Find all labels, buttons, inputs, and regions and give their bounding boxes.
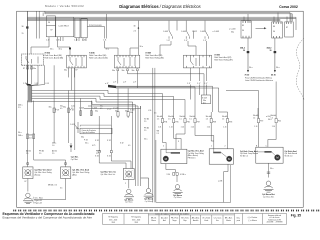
left col wire x99 — [98, 116, 100, 151]
ground G5 — [264, 181, 274, 192]
svg-text:30 a: 30 a — [140, 46, 143, 48]
svg-text:1.0: 1.0 — [52, 145, 54, 147]
label X008 — [145, 53, 151, 55]
left col wire x74.8 — [74, 68, 76, 150]
ground G3 — [141, 178, 154, 198]
svg-text:F19: F19 — [260, 120, 263, 122]
X007 pins below — [69, 68, 75, 91]
svg-text:1 J4: 1 J4 — [254, 126, 257, 128]
X34 connector squares — [173, 173, 179, 176]
left col wire x111 — [110, 116, 112, 151]
svg-text:30 a: 30 a — [50, 49, 53, 51]
svg-text:X 32: X 32 — [107, 156, 111, 158]
fan line 2 — [32, 93, 174, 115]
footer dialog cell — [248, 216, 258, 222]
contact S1 labels — [163, 31, 170, 42]
svg-text:C-013: C-013 — [70, 124, 75, 126]
middle vertical pair long — [153, 68, 155, 203]
G3 label — [144, 199, 153, 203]
V2 motor circle — [63, 170, 69, 176]
svg-text:87: 87 — [25, 181, 27, 183]
svg-text:F38: F38 — [213, 121, 216, 123]
fuse B8 right — [257, 119, 259, 123]
svg-text:Cores de Cabos / Colores de lo: Cores de Cabos / Colores de los Cables — [155, 213, 189, 216]
cut tick strip — [13, 210, 319, 212]
svg-text:1 J4: 1 J4 — [207, 127, 210, 129]
svg-text:35/1 - 35/2: 35/1 - 35/2 — [109, 219, 117, 221]
label 30A-2 left — [240, 47, 245, 53]
svg-text:Fig. 35: Fig. 35 — [291, 213, 301, 217]
svg-text:1.5: 1.5 — [179, 118, 181, 120]
harness band — [28, 85, 32, 102]
svg-text:60 30: 60 30 — [271, 74, 276, 76]
M1 pin wire inner — [165, 149, 167, 153]
svg-text:70 30: 70 30 — [245, 74, 250, 76]
left col wire x80.7 — [80, 99, 82, 117]
page cloud cutout — [296, 38, 304, 100]
left wire to motor2 — [34, 150, 66, 167]
V1 pin square — [27, 163, 29, 165]
M2 resistor tail — [221, 152, 227, 156]
bracket over caixa — [80, 125, 111, 126]
svg-text:30a: 30a — [49, 107, 52, 109]
svg-text:6 J5: 6 J5 — [46, 83, 49, 85]
svg-text:0.5: 0.5 — [154, 113, 156, 115]
svg-text:F18: F18 — [229, 121, 232, 123]
svg-text:30 a: 30 a — [59, 49, 62, 51]
top-right relay box K7 — [285, 22, 294, 37]
svg-text:0.5: 0.5 — [203, 102, 206, 104]
frame border — [17, 11, 304, 207]
X007 inner contact — [69, 55, 84, 68]
wire — [160, 41, 171, 55]
wire from K4 to right — [87, 26, 104, 28]
svg-text:a C-003: a C-003 — [229, 29, 235, 31]
svg-text:30: 30 — [22, 26, 24, 28]
svg-text:30 a: 30 a — [270, 168, 273, 170]
svg-text:Lista C/D/M Distribución Eléct: Lista C/D/M Distribución Eléctrica — [245, 79, 274, 82]
svg-text:30 a: 30 a — [18, 132, 22, 134]
svg-text:X 32: X 32 — [120, 143, 124, 145]
contact switch S2 — [186, 21, 193, 39]
wire drop — [36, 11, 38, 38]
svg-text:30 a: 30 a — [249, 67, 253, 69]
svg-text:F20: F20 — [278, 120, 281, 122]
svg-text:208 a: 208 a — [18, 135, 23, 137]
svg-text:30a: 30a — [130, 112, 133, 114]
svg-text:2.5: 2.5 — [39, 153, 41, 155]
connector labels 1J2 1J3 row — [46, 40, 106, 42]
wire — [58, 41, 71, 55]
net label right of contacts — [229, 29, 235, 34]
fuse A2 — [90, 111, 92, 116]
wire to arrow left — [248, 53, 275, 70]
relay X006 label — [45, 53, 51, 55]
pin labels under X007 — [64, 69, 78, 71]
wires below fuses staircase — [163, 123, 277, 150]
harness band edge — [31, 86, 33, 102]
svg-text:Rojo: Rojo — [184, 220, 187, 222]
M1 resistor — [171, 152, 180, 154]
svg-text:VD blk 1.0: VD blk 1.0 — [285, 155, 293, 157]
left wire labels — [18, 105, 79, 140]
svg-text:2.5: 2.5 — [134, 31, 137, 33]
V2 label — [72, 168, 89, 176]
M2 motor circle — [227, 156, 232, 161]
ground G1 — [23, 193, 33, 204]
svg-text:30a: 30a — [112, 70, 115, 72]
stair wire 1 — [163, 123, 167, 150]
destination text — [245, 77, 274, 83]
fuse B9 right — [275, 119, 277, 123]
svg-text:1 J7: 1 J7 — [197, 83, 200, 85]
relay box K2 — [56, 17, 74, 37]
G1 brace — [32, 197, 35, 204]
svg-text:2.5: 2.5 — [144, 121, 146, 123]
wire X34 to ground G4 — [176, 175, 178, 182]
svg-text:3.5: 3.5 — [60, 188, 62, 190]
M3 resistor — [264, 151, 271, 153]
svg-text:(Baixa): (Baixa) — [35, 174, 41, 176]
svg-text:15: 15 — [22, 33, 24, 35]
G2 label — [124, 199, 133, 203]
svg-text:30 a: 30 a — [276, 67, 280, 69]
svg-text:3: 3 — [178, 141, 179, 143]
right wire B — [258, 123, 260, 148]
fuse row B — [161, 119, 277, 123]
svg-text:30: 30 — [243, 50, 245, 52]
M3 clutch circle — [275, 155, 281, 161]
stair wire 3 — [176, 123, 185, 150]
svg-text:a J7: a J7 — [105, 83, 108, 85]
svg-text:F 34: F 34 — [84, 140, 88, 142]
fuse B1 — [161, 119, 163, 123]
fan line 5 — [32, 101, 136, 104]
wire — [105, 41, 119, 55]
svg-text:POS 15/54 IGN: POS 15/54 IGN — [89, 25, 102, 27]
bundle feed 6 — [88, 105, 138, 107]
X008a pin squares — [117, 69, 138, 71]
right wire C — [268, 123, 276, 148]
M2 resistor — [213, 152, 221, 154]
fan motor box M2 — [209, 149, 233, 164]
svg-text:1.5: 1.5 — [253, 117, 255, 119]
svg-text:1 J4: 1 J4 — [272, 126, 275, 128]
V1 label — [35, 168, 52, 176]
svg-text:F35: F35 — [176, 121, 179, 123]
V2 motor cross — [62, 169, 69, 176]
upper weave wires — [116, 86, 259, 112]
K5 K6 pins down — [248, 38, 275, 52]
weave loop — [116, 86, 213, 112]
svg-text:Figura 44: Figura 44 — [35, 202, 42, 205]
K6 labels — [273, 26, 275, 33]
svg-text:1.5: 1.5 — [157, 118, 159, 120]
X006 pins below — [28, 65, 45, 84]
svg-text:Cpl. Masa: Cpl. Masa — [174, 197, 182, 199]
fuse row A labels — [79, 108, 128, 113]
M3 resistor wires — [258, 152, 275, 156]
connector blob left — [247, 51, 250, 53]
footer table frame — [103, 214, 287, 225]
wire — [130, 48, 138, 55]
svg-text:30: 30 — [270, 50, 272, 52]
bundle feed 7 — [84, 106, 141, 109]
center bundle wires — [84, 102, 141, 186]
svg-text:30a: 30a — [122, 70, 125, 72]
svg-text:a J7: a J7 — [123, 81, 126, 83]
svg-text:1.5: 1.5 — [222, 118, 224, 120]
bus line 30 — [45, 12, 290, 14]
pin square x111 — [110, 151, 112, 153]
fuse A4 — [127, 112, 129, 117]
connector blob right — [274, 51, 277, 53]
svg-text:C-003: C-003 — [163, 31, 168, 33]
svg-text:2.5: 2.5 — [96, 153, 98, 155]
arrow to K6 — [256, 27, 265, 29]
svg-text:1 J3: 1 J3 — [74, 40, 77, 42]
svg-text:Relé Vent. Refrig (86): Relé Vent. Refrig (86) — [145, 57, 164, 60]
svg-text:a C-003: a C-003 — [213, 31, 219, 33]
relay box K1 top-left — [46, 16, 55, 37]
bundle wire 6 — [137, 106, 139, 186]
fuse B3 — [184, 119, 186, 123]
svg-text:Nº Esquema: Nº Esquema — [108, 216, 117, 219]
fuse row B wires top — [163, 112, 277, 119]
wire V2 down — [34, 179, 66, 200]
diode symbol left-center — [70, 146, 73, 149]
ventilator motor box V1 — [23, 167, 33, 179]
wires into motor3 — [99, 153, 131, 169]
svg-text:406 a: 406 a — [18, 105, 23, 107]
svg-text:Nº Diagrama: Nº Diagrama — [131, 216, 141, 219]
svg-text:87: 87 — [51, 30, 53, 32]
bus bundle band — [27, 16, 296, 18]
pin letter labels — [163, 141, 268, 148]
M3 left label — [240, 150, 258, 158]
fuse A1 — [80, 111, 82, 116]
wire gauge labels row under connectors — [50, 46, 143, 51]
svg-text:Cpl. Masa: Cpl. Masa — [145, 201, 153, 203]
svg-text:a J7: a J7 — [133, 81, 136, 83]
X006 pin squares — [26, 67, 32, 69]
contact S3 labels — [200, 31, 219, 42]
contact switch S1 — [169, 21, 177, 39]
wire drop x138 — [138, 21, 139, 56]
M1 motor circle — [163, 156, 168, 161]
pin square x99 — [98, 151, 100, 153]
svg-text:1 J4: 1 J4 — [181, 127, 184, 129]
weave wire — [116, 88, 228, 112]
pin labels 87 30a — [23, 68, 36, 70]
bundle wire 5 — [134, 105, 136, 187]
svg-text:blk =: blk = — [237, 218, 240, 220]
left long wire 2 — [33, 101, 35, 150]
ground G2 — [124, 189, 134, 198]
label right of M1 — [188, 150, 204, 160]
X008b pins below — [190, 68, 206, 100]
svg-text:CZ = Cinza: CZ = Cinza — [214, 218, 222, 220]
svg-text:Modelo / Versão 5601/02: Modelo / Versão 5601/02 — [45, 4, 84, 8]
labels above left motors — [26, 150, 101, 156]
label 30A-2 right — [267, 47, 272, 53]
wire — [206, 41, 208, 55]
M2 pin wire inner — [213, 149, 215, 153]
wire drop pair x105 — [105, 14, 107, 39]
fuse A3 feed — [117, 88, 119, 111]
harness wedge 2 — [108, 85, 116, 88]
relay X006 dashed box — [21, 54, 43, 65]
wire V3 to ground — [128, 180, 130, 189]
svg-text:Relé Vent. Refrig (87): Relé Vent. Refrig (87) — [214, 59, 233, 62]
wire — [31, 41, 49, 54]
compressor box M3 — [256, 147, 283, 163]
svg-text:30: 30 — [242, 30, 244, 32]
svg-text:Blanco: Blanco — [151, 220, 156, 222]
fuse B2 — [173, 119, 175, 123]
svg-text:L 30: L 30 — [148, 110, 151, 112]
svg-text:30a: 30a — [132, 70, 135, 72]
svg-text:Diagramas Elétricos / Diagrama: Diagramas Elétricos / Diagramas Eléctric… — [119, 4, 200, 9]
svg-text:1 J3: 1 J3 — [82, 40, 85, 42]
wire gauge labels — [249, 67, 280, 69]
a014 labels — [266, 116, 272, 121]
svg-text:30a: 30a — [63, 107, 66, 109]
V3 motor cross — [125, 170, 132, 177]
V2 pin square — [65, 163, 67, 165]
vertical pair labels — [144, 119, 160, 141]
svg-text:35/3: 35/3 — [112, 222, 115, 224]
svg-text:X 32: X 32 — [107, 140, 111, 142]
top-right relay box K6 — [272, 22, 283, 38]
left col wire x91.3 — [90, 101, 92, 116]
svg-text:a C-0: a C-0 — [107, 109, 111, 111]
svg-text:30a: 30a — [231, 32, 234, 34]
svg-text:F 19: F 19 — [56, 110, 60, 112]
wires from connector row down to relay row 2 — [31, 41, 207, 55]
wire drop pair left — [42, 13, 44, 17]
box M2 bottom wire — [224, 164, 228, 202]
svg-text:Caja de Fusibles: Caja de Fusibles — [82, 132, 95, 134]
svg-text:PR blk 2.5: PR blk 2.5 — [188, 157, 196, 159]
M3 bottom wire — [268, 163, 270, 178]
wire drop — [38, 11, 40, 38]
aJ7 labels under X008a — [113, 81, 136, 83]
svg-text:406: 406 — [29, 135, 32, 137]
stair wire 5 — [211, 123, 214, 141]
box M1 bottom wire to X34 — [166, 164, 176, 173]
svg-text:87: 87 — [76, 69, 78, 71]
svg-text:30 a: 30 a — [144, 139, 147, 141]
contact S2 labels — [181, 31, 197, 42]
svg-text:22105788 → 2Y999999: 22105788 → 2Y999999 — [267, 222, 283, 224]
svg-text:C-012: C-012 — [192, 31, 197, 33]
svg-text:Para C/D/M Distribuição Elétri: Para C/D/M Distribuição Elétrica — [245, 77, 273, 80]
svg-text:1.5: 1.5 — [206, 118, 208, 120]
X34 labels — [167, 174, 186, 176]
fuse F18 — [68, 108, 70, 113]
relay box K3 — [75, 18, 80, 38]
svg-text:1: 1 — [211, 146, 212, 148]
wire — [188, 41, 196, 55]
V3 label — [101, 170, 117, 176]
svg-text:MR blk / 2.5: MR blk / 2.5 — [48, 185, 57, 187]
svg-text:VD blk 1.0: VD blk 1.0 — [240, 155, 248, 157]
svg-text:30a: 30a — [33, 68, 36, 70]
V3 motor circle — [126, 171, 132, 177]
fuse left low 1 — [26, 134, 28, 139]
junction labels 1J7 row — [187, 83, 207, 85]
X008a inner contact — [117, 55, 136, 68]
fan line 3 — [32, 96, 186, 115]
fuse A3 — [117, 112, 119, 117]
stair wire 6 — [227, 123, 229, 149]
svg-text:1 J4: 1 J4 — [191, 127, 194, 129]
K5 inner labels — [242, 25, 244, 32]
relay small symbols x74-78 — [75, 122, 78, 133]
arrowhead down left — [247, 70, 249, 73]
svg-text:30a: 30a — [81, 137, 84, 139]
svg-text:85: 85 — [242, 25, 244, 27]
svg-text:2: 2 — [225, 146, 226, 148]
svg-text:Cpl. Masa Mot.: Cpl. Masa Mot. — [263, 195, 275, 198]
junction labels 1J5 row — [23, 83, 108, 85]
svg-text:1 J7: 1 J7 — [204, 83, 207, 85]
fan line 1 — [32, 90, 186, 115]
ground G4 — [173, 185, 183, 194]
feed labels 30 15 — [22, 26, 24, 35]
svg-text:1 J7: 1 J7 — [184, 40, 187, 42]
arrowhead — [264, 27, 267, 29]
bus right turn-down — [289, 13, 291, 22]
svg-text:2.5: 2.5 — [144, 130, 146, 132]
relay box X008a — [114, 55, 139, 68]
svg-text:1.5: 1.5 — [271, 117, 273, 119]
svg-text:F36: F36 — [187, 121, 190, 123]
svg-text:0.5: 0.5 — [71, 108, 73, 110]
relay K1 labels — [48, 22, 53, 32]
relay box X007 — [67, 55, 87, 68]
X008b inner contact — [187, 55, 210, 68]
wire V1 to ground — [27, 179, 29, 192]
svg-text:2.5: 2.5 — [18, 107, 21, 109]
left fuse col low labels — [81, 137, 111, 143]
svg-text:0.75: 0.75 — [92, 145, 95, 147]
svg-text:87: 87 — [286, 27, 288, 29]
svg-text:86: 86 — [273, 26, 275, 28]
svg-text:30: 30 — [134, 26, 136, 28]
svg-text:1 J4: 1 J4 — [223, 127, 226, 129]
stair wire 2 — [174, 123, 181, 150]
mid label clusters row — [52, 106, 130, 148]
svg-text:30: 30 — [48, 22, 50, 24]
right col wire a014 — [258, 82, 276, 119]
M1 resistor wire — [166, 152, 171, 154]
svg-text:30 a: 30 a — [85, 143, 88, 145]
svg-text:Cpl. Mot. Vent. Int.: Cpl. Mot. Vent. Int. — [101, 173, 116, 176]
svg-text:30a: 30a — [95, 111, 98, 113]
svg-text:0.5: 0.5 — [60, 108, 62, 110]
label X009 — [214, 55, 220, 57]
top-right relay box K5 — [241, 21, 251, 38]
svg-text:(Alta): (Alta) — [72, 173, 77, 176]
bundle wire 4 — [132, 102, 134, 169]
left col wire x68.7 — [68, 91, 70, 143]
relay X006 inner contact — [26, 56, 38, 64]
bold dest labels — [245, 74, 276, 76]
svg-text:2.5: 2.5 — [157, 133, 159, 135]
fuse left low 2 — [33, 134, 35, 139]
